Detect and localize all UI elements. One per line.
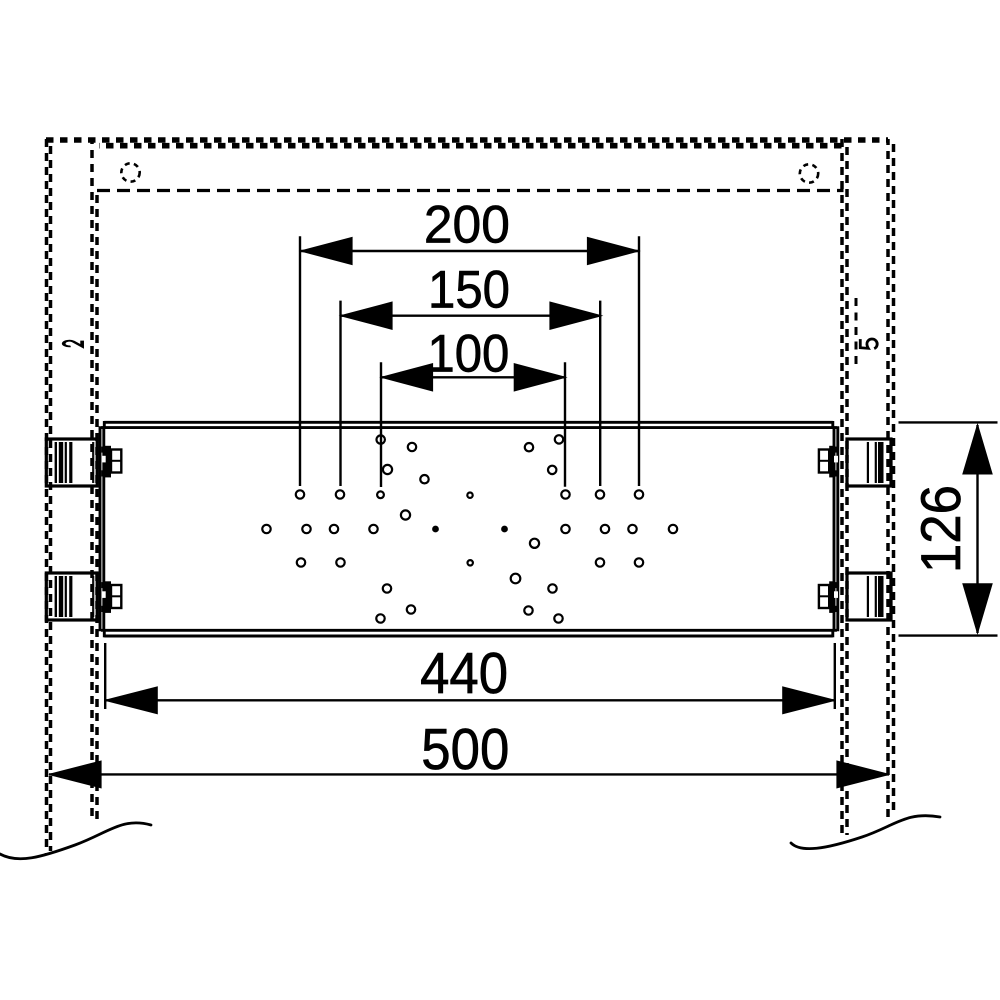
dim line 126 (vertical)	[976, 425, 978, 633]
extension line 200 right	[638, 236, 640, 486]
arrowhead 500 left	[49, 761, 101, 788]
plate hole at (605,529)	[601, 525, 609, 533]
plate top-right corner step	[831, 421, 834, 429]
svg-text:100: 100	[427, 324, 509, 383]
plate hole at (552.5,588.5)	[548, 584, 556, 592]
plate hole at (515.5,578.5)	[511, 574, 521, 584]
right top bolt	[819, 446, 839, 478]
extension line 440 left	[104, 643, 106, 709]
plate hole at (412,447)	[408, 443, 416, 451]
dim line 200	[301, 250, 639, 252]
left bottom clamp block	[46, 573, 97, 620]
plate hole at (424.5,479.2)	[420, 475, 428, 483]
plate hole at (435.5,529)	[433, 527, 438, 532]
svg-text:150: 150	[428, 260, 510, 319]
plate hole at (639,494.5)	[635, 490, 643, 498]
arrowhead 150 right	[550, 302, 601, 329]
svg-text:440: 440	[420, 641, 508, 706]
svg-text:126: 126	[909, 485, 972, 573]
plate hole at (380.7,439.6)	[377, 435, 385, 443]
extension line 200 left	[299, 236, 301, 486]
right stud lip short dashed line	[855, 298, 858, 366]
plate hole at (639,562.5)	[635, 558, 643, 566]
arrowhead 100 left	[382, 364, 433, 391]
arrowhead 440 right	[783, 687, 835, 714]
arrowhead 126 up	[963, 425, 992, 474]
extension line 100 right	[564, 362, 566, 487]
dim 500	[49, 773, 889, 775]
plate left edge inner line	[102, 426, 105, 631]
arrowhead 200 left	[301, 238, 352, 265]
extension line 150 right	[599, 301, 601, 486]
plate hole at (565.5,494.5)	[561, 490, 569, 498]
left top clamp block	[46, 439, 97, 486]
plate top-left corner step	[103, 421, 106, 429]
plate hole at (334,529)	[330, 525, 338, 533]
extension line 440 right	[834, 643, 836, 709]
plate hole at (559,439.4)	[555, 435, 563, 443]
plate hole at (373.5,529)	[369, 525, 377, 533]
plate bottom-left corner step	[103, 629, 106, 637]
plate hole at (301,562.5)	[297, 558, 305, 566]
plate hole at (266.5,529)	[262, 525, 270, 533]
left stud outer edge dashed pair	[45, 139, 49, 854]
plate hole at (387.5,469.5)	[383, 465, 392, 474]
plate hole at (340,494.5)	[336, 490, 344, 498]
plate top edge outer line	[104, 421, 833, 424]
plate right edge inner line	[833, 426, 836, 631]
arrowhead 100 right	[514, 364, 565, 391]
left stud inner edge dashed pair	[90, 139, 94, 822]
rail hole left (dashed circle)	[121, 163, 139, 181]
plate hole at (380.5,618.5)	[376, 614, 384, 622]
plate hole at (405.5,515)	[401, 510, 410, 519]
plate hole at (300,494.5)	[296, 490, 304, 498]
item label 2 (left stud, rotated digit)	[64, 341, 82, 347]
arrowhead 500 right	[837, 761, 889, 788]
left top bolt	[102, 446, 122, 478]
break line right stud	[791, 816, 940, 849]
plate hole at (387,588.5)	[383, 584, 391, 592]
extension line 150 left	[339, 301, 341, 486]
plate hole at (340.5,562.5)	[336, 558, 344, 566]
extension line 100 left	[380, 362, 382, 487]
plate hole at (600,494.5)	[596, 490, 604, 498]
dim line 100	[382, 376, 566, 378]
right bottom clamp block	[847, 573, 891, 620]
extension line 126 bottom	[899, 634, 998, 636]
plate hole at (632.5,529)	[628, 525, 636, 533]
plate hole at (552.2,469.9)	[548, 466, 556, 474]
arrowhead 440 left	[105, 687, 157, 714]
plate hole at (528.5,610.5)	[524, 606, 532, 614]
item label 5 (right stud, rotated digit)	[860, 339, 877, 349]
plate hole at (534.5,543.3)	[530, 539, 539, 548]
svg-text:200: 200	[424, 195, 510, 254]
plate hole at (529,447.2)	[525, 443, 533, 451]
plate left edge outer line	[99, 426, 102, 631]
plate hole at (600,562.5)	[596, 558, 604, 566]
top rail bottom edge dashed	[97, 189, 844, 192]
plate hole at (306.5,529)	[302, 525, 310, 533]
right stud outer edge dashed pair	[886, 139, 890, 818]
top rail top edge checker (two offset dashed rows)	[46, 137, 888, 143]
plate bottom-right corner step	[831, 629, 834, 637]
plate right edge outer line	[836, 426, 839, 631]
plate bottom edge outer line	[104, 635, 833, 638]
plate hole at (470.2,562.8)	[468, 560, 473, 565]
right stud inner edge dashed pair	[840, 139, 844, 837]
extension line 126 top	[899, 421, 998, 423]
plate hole at (673,529)	[669, 525, 677, 533]
right top clamp block	[847, 439, 891, 486]
break line left stud	[0, 823, 151, 859]
plate hole at (565.5,529)	[561, 525, 569, 533]
arrowhead 200 right	[588, 238, 639, 265]
plate hole at (470,495.2)	[467, 493, 472, 498]
plate hole at (380.5,494.8)	[377, 491, 384, 498]
arrowhead 126 down	[963, 584, 992, 633]
rail hole right (dashed circle)	[800, 164, 818, 182]
arrowhead 150 left	[341, 302, 392, 329]
plate hole at (558.5,618.5)	[554, 614, 562, 622]
right bottom bolt	[819, 581, 839, 613]
dim line 150	[341, 315, 601, 317]
plate hole at (411,609.5)	[407, 605, 415, 613]
svg-text:500: 500	[421, 717, 509, 782]
plate top edge inner line	[101, 426, 837, 429]
dim line 440	[105, 699, 835, 701]
plate bottom edge inner line	[101, 629, 837, 632]
plate hole at (504.5,529)	[502, 527, 507, 532]
left bottom bolt	[102, 581, 122, 613]
